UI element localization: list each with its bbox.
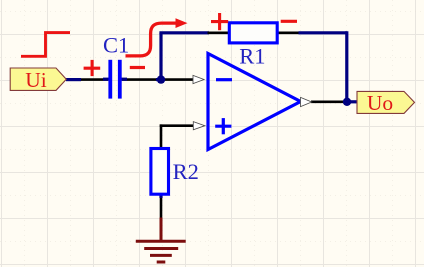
node B junction dot [343,98,351,106]
polarity plus at R1 [211,13,228,30]
wire vertical to R2 top [160,124,163,149]
polarity plus at C1 [84,60,101,76]
port Ui [10,68,66,92]
wire feedback vertical from node A up [159,33,162,80]
wire feedback top horizontal right [299,31,348,34]
op-amp minus input sign [216,78,232,81]
wire navy segment into node A [156,78,165,81]
polarity minus at R1 [281,20,297,23]
pin arrow output [301,97,312,106]
ground [136,218,186,263]
polarity minus at C1 [130,66,145,69]
svg-text:Ui: Ui [25,68,47,92]
capacitor C1 [103,60,127,99]
svg-text:Uo: Uo [367,91,393,115]
op-amp plus input sign [215,118,231,134]
wire feedback right vertical down to output node [345,31,348,102]
red current arrow [126,18,188,56]
wire pin R1 left [208,31,231,34]
wire op-amp output to node B [311,101,345,104]
port Uo [357,91,415,115]
wire input rail Ui to C1 [66,78,108,81]
wire pin R1 right [277,31,300,34]
node A junction dot [157,75,165,83]
pin arrow non-inverting input [193,122,205,130]
resistor R1 [229,23,277,43]
pin arrow inverting input [193,75,204,83]
wire non-inverting input horizontal [160,124,194,127]
svg-text:C1: C1 [103,32,129,57]
input step waveform [21,33,70,57]
op-amp U1 [208,54,301,150]
wire R2 bottom lead [160,194,163,219]
svg-text:R2: R2 [173,159,199,184]
wire C1 to op-amp [122,78,193,81]
wire navy stub node B to Uo [344,100,358,103]
resistor R2 [151,149,169,195]
wire navy stub below R2 [159,194,162,198]
wire navy stub at Ui tip [66,78,81,81]
wire feedback top horizontal left [159,31,209,34]
svg-text:R1: R1 [239,43,265,68]
